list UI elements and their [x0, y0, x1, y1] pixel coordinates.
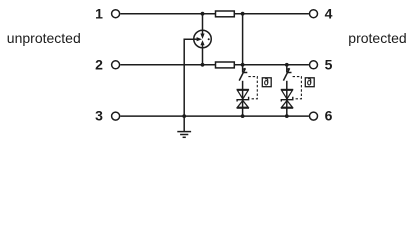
junction dot line3 / ground: [182, 114, 186, 118]
wire line2 to switch F2 (branch 2): [286, 65, 288, 73]
resistor R1 (on line1): [216, 11, 235, 17]
wire arrester left electrode to ground (L-shape, crosses line2): [184, 39, 194, 116]
terminal 4 circle: [310, 10, 318, 18]
temperature sensor box theta 2: [305, 78, 314, 87]
temperature sensor box theta 1: [262, 78, 271, 87]
junction dot line2 / branch2: [285, 63, 289, 67]
svg-text:4: 4: [325, 5, 333, 21]
svg-text:5: 5: [325, 56, 333, 72]
dashed thermal link branch 2: [293, 77, 302, 99]
junction dot line3 / branch2: [285, 114, 289, 118]
svg-text:1: 1: [95, 5, 103, 21]
wire vertical line1 to switch F1 (crosses line2): [242, 14, 244, 73]
dashed thermal link branch 1: [248, 77, 257, 99]
junction dot line1 / arrester: [201, 12, 205, 16]
junction dot line2 / arrester: [201, 63, 205, 67]
terminal 2 circle: [112, 61, 120, 69]
svg-text:3: 3: [95, 108, 103, 124]
wire arrester bottom to line2: [202, 47, 204, 65]
arrester gas-filled dot: [208, 38, 210, 40]
terminal 3 circle: [112, 112, 120, 120]
arrester left electrode arrow: [194, 37, 202, 41]
arrester top electrode arrow: [200, 30, 204, 39]
svg-text:6: 6: [325, 108, 333, 124]
junction dot line2 / branch1: [241, 63, 245, 67]
wire vertical line1 to arrester top: [202, 14, 204, 31]
wire line3 to ground symbol: [183, 116, 185, 131]
arrester bottom electrode arrow: [200, 40, 204, 48]
wire line1 (terminal 1 to terminal 4): [120, 13, 309, 15]
wire line2 (terminal 2 to terminal 5): [120, 64, 309, 66]
wire line3 (terminal 3 to terminal 6): [120, 115, 309, 117]
svg-text:unprotected: unprotected: [7, 30, 81, 46]
svg-text:protected: protected: [348, 30, 406, 46]
terminal 1 circle: [112, 10, 120, 18]
junction dot line1 / branch1: [241, 12, 245, 16]
suppressor diode V2 (bidirectional, branch 2): [281, 90, 293, 109]
thermal disconnect switch F1 (branch 1): [239, 68, 247, 80]
suppressor diode V1 (bidirectional, branch 1): [237, 90, 249, 109]
thermal disconnect switch F2 (branch 2): [283, 68, 291, 80]
resistor R2 (on line2): [216, 62, 235, 68]
terminal 6 circle: [310, 112, 318, 120]
wire switch F2 to suppressor diode V2: [286, 81, 288, 116]
terminal 5 circle: [310, 61, 318, 69]
ground symbol: [177, 132, 191, 138]
gas discharge arrester F0 (3-electrode) circle: [194, 30, 212, 48]
wire switch F1 to suppressor diode V1: [242, 81, 244, 116]
junction dot line3 / branch1: [241, 114, 245, 118]
svg-text:2: 2: [95, 56, 103, 72]
